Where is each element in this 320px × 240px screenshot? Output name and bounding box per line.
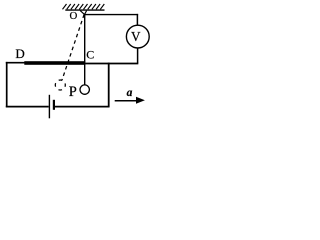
pivot V hanger right arm bbox=[85, 11, 87, 15]
pivot V hanger left arm bbox=[80, 11, 84, 15]
wire: bottom right riser bbox=[108, 63, 110, 108]
pendulum string (solid, vertical) bbox=[84, 14, 86, 85]
svg-text:O: O bbox=[70, 10, 78, 22]
wire: left side to plate D bbox=[6, 62, 25, 64]
wire: bottom, left of battery bbox=[6, 106, 49, 108]
pendulum ball (solid) bbox=[80, 85, 89, 94]
battery: long thin plate bbox=[48, 95, 50, 119]
svg-text:V: V bbox=[131, 29, 141, 44]
wire: top horizontal (pivot to voltmeter) bbox=[85, 14, 139, 16]
wire: voltmeter top lead bbox=[136, 14, 138, 26]
wire: left side vertical bbox=[6, 62, 8, 107]
svg-text:D: D bbox=[15, 46, 24, 61]
ceiling hatching bbox=[63, 4, 105, 9]
pendulum string (dashed, deflected position) bbox=[62, 15, 84, 81]
wire: middle horizontal (C level to voltmeter) bbox=[85, 63, 138, 65]
acceleration arrow head bbox=[136, 97, 145, 104]
svg-text:C: C bbox=[86, 47, 94, 61]
battery: short thick plate bbox=[53, 100, 55, 110]
wire: bottom, battery to right corner bbox=[55, 106, 110, 108]
voltmeter U1 circle bbox=[126, 25, 149, 48]
acceleration arrow shaft bbox=[115, 100, 137, 102]
svg-text:P: P bbox=[69, 84, 77, 100]
wire: voltmeter bottom lead bbox=[137, 48, 139, 63]
ceiling line bbox=[65, 9, 104, 11]
ball P (dashed circle, deflected position) bbox=[55, 80, 65, 90]
svg-text:a: a bbox=[127, 87, 133, 99]
plate D (thick bar) bbox=[24, 61, 85, 65]
